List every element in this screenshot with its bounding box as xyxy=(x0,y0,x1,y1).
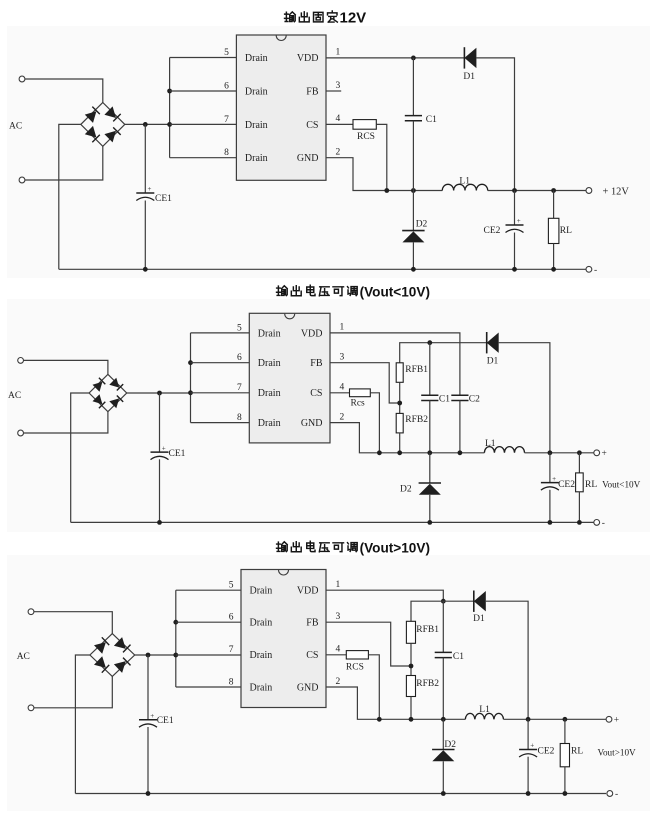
svg-text:CE2: CE2 xyxy=(558,480,575,490)
node RL top junction (c3) xyxy=(563,717,568,722)
capacitor C1 (c3) xyxy=(435,652,465,662)
resistor RCS xyxy=(353,120,376,142)
terminal negative output (c3) xyxy=(607,790,618,800)
node C1/D2 rail junction (c1) xyxy=(411,188,416,193)
capacitor C2 xyxy=(451,395,480,405)
svg-text:RFB2: RFB2 xyxy=(405,415,428,425)
terminal AC neutral input (circuit 3) xyxy=(28,705,34,711)
svg-text:Vout<10V: Vout<10V xyxy=(602,480,641,490)
svg-text:RL: RL xyxy=(560,226,572,236)
svg-text:Drain: Drain xyxy=(250,650,273,661)
svg-text:7: 7 xyxy=(237,383,242,393)
svg-text:C1: C1 xyxy=(426,115,437,125)
node C1/D2 rail junction (c2) xyxy=(427,450,432,455)
wire pin 8 wire (c1) xyxy=(170,157,237,159)
svg-text:Drain: Drain xyxy=(258,328,281,339)
svg-text:8: 8 xyxy=(237,413,242,423)
node D2 ground junction (c2) xyxy=(427,520,432,525)
svg-text:3: 3 xyxy=(336,81,341,91)
wire C1 column bottom (c1) xyxy=(412,121,414,191)
wire ground rail (c1) xyxy=(59,268,586,270)
svg-text:L1: L1 xyxy=(459,176,470,186)
svg-text:CE1: CE1 xyxy=(157,716,174,726)
wire pin 7 wire (c2) xyxy=(191,392,250,394)
wire VDD pin1 wire (c1) xyxy=(326,57,464,59)
node Rcs rail junction (c2) xyxy=(377,450,382,455)
svg-text:5: 5 xyxy=(237,323,242,333)
svg-text:Drain: Drain xyxy=(245,86,268,97)
terminal AC live input (circuit 3) xyxy=(28,609,34,615)
wire pin 8 wire (c2) xyxy=(191,422,250,424)
terminal AC live input (circuit 1) xyxy=(19,76,25,82)
diode D2 (c3) xyxy=(432,740,456,762)
wire RFB1 top wire (c3) xyxy=(411,601,474,621)
node bus pin6 junction (c3) xyxy=(173,620,178,625)
wire RFB1 top wire (c2) xyxy=(400,343,487,363)
wire D2 bottom lead (c2) xyxy=(429,495,431,523)
resistor RFB1 xyxy=(396,363,428,383)
svg-text:VDD: VDD xyxy=(297,53,319,64)
svg-text:C1: C1 xyxy=(453,652,464,662)
node D2 ground junction (c3) xyxy=(441,791,446,796)
wire pin 7 wire (c3) xyxy=(176,654,241,656)
terminal positive output (c2) xyxy=(594,449,607,459)
wire pin 5 wire (c1) xyxy=(170,57,237,59)
svg-text:1: 1 xyxy=(336,47,341,57)
svg-text:GND: GND xyxy=(301,418,323,429)
wire AC bottom to bridge (c2) xyxy=(24,412,108,433)
svg-text:2: 2 xyxy=(336,677,341,687)
svg-text:5: 5 xyxy=(224,48,229,58)
wire CE1 bottom lead (c2) xyxy=(159,459,161,522)
wire D2 top lead (c1) xyxy=(412,191,414,231)
wire RL top lead (c1) xyxy=(553,191,555,219)
label title circuit3: adjustable Vout&gt;10V xyxy=(277,540,430,555)
panel circuit 1 background xyxy=(7,26,650,278)
wire pin 6 wire (c1) xyxy=(170,90,237,92)
svg-text:4: 4 xyxy=(336,114,341,124)
resistor Rcs xyxy=(350,389,371,409)
wire RFB1 to RFB2 (c2) xyxy=(399,382,401,413)
svg-text:-: - xyxy=(594,266,597,276)
node D2 ground junction (c1) xyxy=(411,267,416,272)
svg-text:3: 3 xyxy=(340,353,345,363)
wire D2 bottom lead (c3) xyxy=(442,761,444,793)
svg-text:6: 6 xyxy=(237,353,242,363)
svg-text:CE2: CE2 xyxy=(538,747,555,757)
svg-text:CE1: CE1 xyxy=(155,194,172,204)
wire bridge negative to ground rail (c1) xyxy=(59,124,81,269)
svg-text:-: - xyxy=(615,790,618,800)
wire C2 column bottom (c2) xyxy=(459,401,461,453)
svg-text:+: + xyxy=(162,444,166,452)
wire FB pin3 stub (c1) xyxy=(326,90,341,92)
svg-text:FB: FB xyxy=(306,618,319,629)
svg-text:12V: 12V xyxy=(340,10,367,27)
svg-text:Drain: Drain xyxy=(258,358,281,369)
svg-text:Drain: Drain xyxy=(250,618,273,629)
svg-text:Drain: Drain xyxy=(258,418,281,429)
svg-text:CS: CS xyxy=(306,650,318,661)
diode D1 xyxy=(487,332,499,367)
wire drain bus vertical (c3) xyxy=(175,590,177,687)
wire C1 column bottom (c2) xyxy=(429,401,431,453)
wire VDD pin1 wire (c3) xyxy=(326,590,443,601)
svg-text:AC: AC xyxy=(8,391,21,401)
wire GND pin2 to switch rail (c2) xyxy=(330,423,484,453)
svg-text:Vout>10V: Vout>10V xyxy=(598,747,637,757)
wire RL bottom lead (c3) xyxy=(564,767,566,794)
svg-text:AC: AC xyxy=(17,652,30,662)
resistor RL (c2) xyxy=(576,473,598,492)
svg-text:L1: L1 xyxy=(485,439,496,449)
wire D2 top lead (c2) xyxy=(429,453,431,483)
svg-text:VDD: VDD xyxy=(297,586,319,597)
svg-text:Drain: Drain xyxy=(250,586,273,597)
wire CE1 bottom lead (c3) xyxy=(147,727,149,794)
bridge rectifier B1 (c2) xyxy=(89,374,127,411)
svg-text:6: 6 xyxy=(224,81,229,91)
node output/CE2 junction (c1) xyxy=(512,188,517,193)
bridge rectifier B1 (c3) xyxy=(90,634,135,677)
terminal AC live input (circuit 2) xyxy=(18,358,24,364)
wire switch rail after L1 (c3) xyxy=(504,718,607,720)
node bus pin7 junction (c3) xyxy=(173,653,178,658)
capacitor C1 xyxy=(405,115,437,125)
svg-text:FB: FB xyxy=(310,358,323,369)
node VDD/C1 junction (c3) xyxy=(441,599,446,604)
wire pin 5 wire (c2) xyxy=(191,332,250,334)
wire CS pin4 to RCS (c3) xyxy=(326,654,346,656)
resistor RL (c3) xyxy=(560,744,583,767)
svg-text:+: + xyxy=(552,475,556,483)
capacitor CE2 xyxy=(541,475,575,490)
svg-text:3: 3 xyxy=(336,612,341,622)
svg-text:D2: D2 xyxy=(416,220,428,230)
op-amp U1 (buck converter IC) xyxy=(224,35,340,180)
svg-text:CE2: CE2 xyxy=(484,226,501,236)
node CE2 ground junction (c2) xyxy=(548,520,553,525)
wire switch rail after L1 (c2) xyxy=(525,452,594,454)
capacitor CE1 xyxy=(139,712,174,727)
node RL top junction (c1) xyxy=(551,188,556,193)
wire AC top to bridge (c2) xyxy=(24,360,108,374)
capacitor C1 xyxy=(421,395,450,405)
node bus pin6 junction (c2) xyxy=(188,360,193,365)
svg-text:2: 2 xyxy=(336,148,341,158)
svg-text:7: 7 xyxy=(224,115,229,125)
wire ground rail (c2) xyxy=(71,521,594,523)
svg-text:+: + xyxy=(530,742,534,750)
svg-text:4: 4 xyxy=(340,383,345,393)
svg-text:RFB2: RFB2 xyxy=(416,679,439,689)
op-amp U1 (c2) (buck converter IC) xyxy=(237,313,344,443)
wire RFB2 bottom lead (c3) xyxy=(410,697,412,720)
diode D1 xyxy=(463,47,476,82)
wire FB pin3 wire (c3) xyxy=(326,622,411,666)
svg-text:8: 8 xyxy=(229,677,234,687)
svg-text:C1: C1 xyxy=(439,395,450,405)
wire AC top to bridge (c1) xyxy=(25,79,103,103)
svg-text:RCS: RCS xyxy=(346,663,364,673)
node RCS rail junction (c1) xyxy=(384,188,389,193)
wire RL bottom lead (c1) xyxy=(553,244,555,270)
svg-text:Drain: Drain xyxy=(245,53,268,64)
svg-text:Rcs: Rcs xyxy=(351,399,366,409)
resistor RFB2 (c3) xyxy=(406,676,439,697)
resistor RCS (c3) xyxy=(346,651,369,673)
panel circuit 3 background xyxy=(7,555,650,811)
svg-text:D1: D1 xyxy=(473,614,485,624)
node CE2 ground junction (c1) xyxy=(512,267,517,272)
svg-text:Drain: Drain xyxy=(258,388,281,399)
svg-text:1: 1 xyxy=(340,323,345,333)
svg-text:2: 2 xyxy=(340,412,345,422)
capacitor CE2 (c3) xyxy=(519,742,555,757)
node bridge out / CE1 junction (c1) xyxy=(143,122,148,127)
wire C1 column top (c3) xyxy=(442,601,444,652)
svg-text:D1: D1 xyxy=(463,72,475,82)
svg-text:C2: C2 xyxy=(469,395,480,405)
wire pin 5 wire (c3) xyxy=(176,589,241,591)
node RCS rail junction (c3) xyxy=(377,717,382,722)
node VDD / C1 junction (c1) xyxy=(411,56,416,61)
svg-text:(Vout>10V): (Vout>10V) xyxy=(360,540,430,555)
wire pin 7 wire (c1) xyxy=(170,123,237,125)
wire CE2 bottom lead (c1) xyxy=(514,233,516,270)
node output/CE2 junction (c2) xyxy=(548,450,553,455)
node RFB1/C1 top junction (c2) xyxy=(427,340,432,345)
wire CE2 bottom lead (c2) xyxy=(549,490,551,523)
node CE1 ground junction (c1) xyxy=(143,267,148,272)
svg-text:-: - xyxy=(602,519,605,529)
panel circuit 2 background xyxy=(7,299,650,532)
node RL ground junction (c2) xyxy=(577,520,582,525)
svg-text:RFB1: RFB1 xyxy=(416,625,439,635)
node RFB2 rail junction (c3) xyxy=(409,717,414,722)
node feedback divider node (c3) xyxy=(409,664,414,669)
svg-text:L1: L1 xyxy=(479,705,490,715)
node CE1 ground junction (c3) xyxy=(146,791,151,796)
svg-text:D1: D1 xyxy=(487,357,499,367)
label title circuit1: fixed 12V output xyxy=(285,10,367,27)
wire bridge positive to drain bus (c3) xyxy=(135,654,176,656)
wire D1 to output column (c1) xyxy=(476,58,514,191)
label title circuit2: adjustable Vout&lt;10V xyxy=(277,284,430,299)
node C1/D2 rail junction (c3) xyxy=(441,717,446,722)
wire RCS to switch rail (c3) xyxy=(368,655,379,720)
svg-text:5: 5 xyxy=(229,581,234,591)
svg-text:RFB1: RFB1 xyxy=(405,365,428,375)
svg-text:AC: AC xyxy=(9,122,22,132)
svg-text:7: 7 xyxy=(229,645,234,655)
wire GND pin2 to switch rail (c3) xyxy=(326,687,465,719)
svg-text:RCS: RCS xyxy=(357,132,375,142)
wire CS pin4 to Rcs (c2) xyxy=(330,392,350,394)
wire D1 to output column (c3) xyxy=(486,601,528,719)
wire CE2 top lead (c2) xyxy=(549,453,551,483)
inductor L1 (c2) xyxy=(484,439,524,453)
svg-text:D2: D2 xyxy=(444,740,456,750)
wire switch rail after L1 (c1) xyxy=(488,190,586,192)
wire C1 column bottom (c3) xyxy=(442,658,444,720)
node RFB2 rail junction (c2) xyxy=(397,450,402,455)
node bridge out / CE1 junction (c2) xyxy=(157,391,162,396)
svg-text:GND: GND xyxy=(297,153,319,164)
svg-text:4: 4 xyxy=(336,645,341,655)
wire RL top lead (c2) xyxy=(578,453,580,473)
wire CE2 top lead (c3) xyxy=(527,719,529,749)
resistor RFB2 xyxy=(396,413,428,433)
svg-text:+: + xyxy=(602,449,607,459)
wire RCS to switch rail (c1) xyxy=(376,124,387,190)
node CE2 ground junction (c3) xyxy=(526,791,531,796)
svg-text:+: + xyxy=(614,716,619,726)
node RL ground junction (c3) xyxy=(563,791,568,796)
node bus pin7 junction (c2) xyxy=(188,390,193,395)
svg-text:(Vout<10V): (Vout<10V) xyxy=(360,284,430,299)
terminal AC neutral input (circuit 2) xyxy=(18,430,24,436)
node C2 rail junction (c2) xyxy=(458,450,463,455)
svg-text:GND: GND xyxy=(297,682,319,693)
svg-text:Drain: Drain xyxy=(250,682,273,693)
svg-text:RL: RL xyxy=(585,480,597,490)
op-amp U1 (c3) (buck converter IC) xyxy=(229,570,341,708)
node feedback divider node (c2) xyxy=(397,401,402,406)
node bridge out / CE1 junction (c3) xyxy=(146,653,151,658)
svg-text:Drain: Drain xyxy=(245,153,268,164)
wire RFB2 bottom lead (c2) xyxy=(399,433,401,453)
wire CE2 bottom lead (c3) xyxy=(527,757,529,794)
wire C1 column top (c2) xyxy=(429,343,431,396)
wire CE2 top lead (c1) xyxy=(514,191,516,226)
svg-text:1: 1 xyxy=(336,580,341,590)
svg-text:CS: CS xyxy=(306,120,318,131)
node RL ground junction (c1) xyxy=(551,267,556,272)
terminal negative output (c2) xyxy=(594,519,605,529)
wire RFB1 to RFB2 (c3) xyxy=(410,643,412,675)
wire bridge negative to ground rail (c2) xyxy=(71,393,89,522)
terminal positive output (c3) xyxy=(606,716,619,726)
wire CE1 bottom lead (c1) xyxy=(144,201,146,270)
svg-text:VDD: VDD xyxy=(301,328,323,339)
node RL top junction (c2) xyxy=(577,450,582,455)
node bus pin6 junction (c1) xyxy=(167,89,172,94)
wire FB pin3 wire (c2) xyxy=(330,363,400,403)
wire AC bottom to bridge (c1) xyxy=(25,146,103,180)
inductor L1 xyxy=(442,176,487,190)
wire D1 to output column (c2) xyxy=(499,343,550,453)
capacitor CE1 xyxy=(136,185,172,204)
wire pin 6 wire (c2) xyxy=(191,362,250,364)
svg-text:Drain: Drain xyxy=(245,120,268,131)
wire CS pin4 to RCS (c1) xyxy=(326,123,353,125)
terminal +12V output (c1) xyxy=(586,187,629,198)
svg-text:+: + xyxy=(517,217,521,225)
svg-text:RL: RL xyxy=(571,747,583,757)
svg-text:8: 8 xyxy=(224,148,229,158)
resistor RFB1 (c3) xyxy=(406,621,439,643)
bridge rectifier B1 (c1) xyxy=(81,103,125,147)
capacitor CE1 xyxy=(151,444,186,459)
wire C1 column top (c1) xyxy=(412,58,414,116)
diode D1 (c3) xyxy=(473,591,486,625)
svg-text:CS: CS xyxy=(310,388,322,399)
diode D2 (c2) xyxy=(400,483,441,495)
wire bridge positive to drain bus (c2) xyxy=(127,392,191,394)
svg-text:6: 6 xyxy=(229,613,234,623)
svg-text:+: + xyxy=(150,712,154,720)
svg-text:CE1: CE1 xyxy=(169,449,186,459)
wire drain bus vertical (c2) xyxy=(190,333,192,423)
wire drain bus vertical (c1) xyxy=(169,58,171,158)
wire ground rail (c3) xyxy=(75,793,606,795)
capacitor CE2 xyxy=(484,217,524,236)
wire D2 top lead (c3) xyxy=(442,719,444,749)
diode D2 xyxy=(402,220,427,243)
node bus pin7 junction (c1) xyxy=(167,122,172,127)
svg-text:+: + xyxy=(148,185,152,193)
wire CE1 top lead (c3) xyxy=(147,655,149,720)
wire D2 bottom lead (c1) xyxy=(412,242,414,269)
wire AC bottom to bridge (c3) xyxy=(34,676,112,707)
wire bridge negative to ground rail (c3) xyxy=(75,655,90,794)
inductor L1 (c3) xyxy=(465,705,503,719)
wire pin 8 wire (c3) xyxy=(176,686,241,688)
svg-text:+ 12V: + 12V xyxy=(603,187,630,198)
wire CE1 top lead (c2) xyxy=(159,393,161,452)
wire Rcs to switch rail (c2) xyxy=(370,393,379,453)
wire GND pin2 to switch rail (c1) xyxy=(326,158,442,191)
wire bridge positive to drain bus (c1) xyxy=(125,123,170,125)
resistor RL xyxy=(548,218,572,243)
terminal negative output (c1) xyxy=(586,266,597,276)
wire pin 6 wire (c3) xyxy=(176,621,241,623)
svg-text:D2: D2 xyxy=(400,485,412,495)
wire CE1 top lead (c1) xyxy=(144,124,146,193)
wire RL bottom lead (c2) xyxy=(578,492,580,523)
wire AC top to bridge (c3) xyxy=(34,612,112,634)
node CE1 ground junction (c2) xyxy=(157,520,162,525)
terminal AC neutral input (circuit 1) xyxy=(19,177,25,183)
svg-text:FB: FB xyxy=(306,86,319,97)
node output/CE2 junction (c3) xyxy=(526,717,531,722)
wire VDD pin1 wire (c2) xyxy=(330,333,460,395)
wire RL top lead (c3) xyxy=(564,719,566,743)
